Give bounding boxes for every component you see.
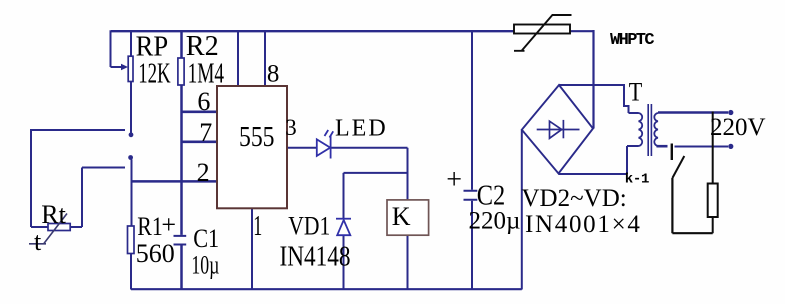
resistor R1 body bbox=[128, 226, 135, 254]
wire below lower contact to R1 bbox=[131, 160, 133, 227]
wire bottom rail bbox=[131, 288, 522, 290]
svg-text:VD2~VD:: VD2~VD: bbox=[522, 185, 627, 212]
node connector contact lower bbox=[128, 155, 133, 160]
wire R1 bottom to rail bbox=[130, 254, 132, 290]
svg-text:+: + bbox=[446, 165, 462, 196]
wire probe upper (Rt left to connector) bbox=[31, 129, 125, 227]
svg-text:220V: 220V bbox=[710, 114, 766, 141]
svg-text:220µ: 220µ bbox=[469, 208, 521, 235]
wire RP bottom to contact bbox=[130, 82, 132, 133]
svg-text:6: 6 bbox=[197, 87, 210, 116]
svg-text:t: t bbox=[34, 227, 42, 256]
svg-text:IN4148: IN4148 bbox=[280, 242, 351, 273]
wire RP top bbox=[130, 30, 132, 56]
svg-text:1M4: 1M4 bbox=[188, 58, 225, 89]
svg-text:8: 8 bbox=[267, 60, 280, 87]
node connector contact upper bbox=[129, 132, 134, 137]
LED D symbol bbox=[317, 130, 333, 159]
wire top rail right of PTC bbox=[570, 30, 594, 129]
resistor (load) right branch bbox=[708, 112, 718, 234]
wire pin1 bbox=[251, 208, 253, 289]
wire rail to 555 top (pin8) bbox=[264, 30, 266, 87]
wire top rail bbox=[111, 30, 514, 32]
svg-text:2: 2 bbox=[197, 158, 210, 187]
wire LED to K column bbox=[331, 148, 408, 200]
svg-text:WHPTC: WHPTC bbox=[610, 31, 654, 50]
svg-text:1: 1 bbox=[253, 210, 262, 242]
potentiometer RP body bbox=[128, 56, 133, 81]
svg-text:C1: C1 bbox=[193, 223, 219, 253]
wire bridge left corner to bottom rail bbox=[521, 130, 523, 290]
wire pin3 to LED bbox=[287, 147, 317, 149]
PTC heater WHPTC symbol bbox=[514, 15, 572, 51]
node 220V top terminal bbox=[728, 110, 733, 115]
svg-text:Rt: Rt bbox=[41, 200, 66, 229]
wire K bottom bbox=[407, 235, 409, 289]
transformer core bbox=[648, 104, 651, 156]
wire probe lower (Rt right to connector) bbox=[70, 168, 125, 228]
switch contact k-1 bbox=[672, 144, 713, 234]
wire pin2 bbox=[132, 180, 218, 183]
wire pin6 bbox=[182, 111, 218, 114]
svg-text:LED: LED bbox=[335, 115, 388, 141]
resistor R2 body bbox=[178, 58, 184, 85]
svg-text:K: K bbox=[392, 202, 411, 231]
wire rail to 555 top (pin4) bbox=[237, 30, 239, 87]
thermistor Rt body bbox=[48, 224, 70, 231]
wire bottom lead right of contact bbox=[675, 146, 729, 148]
bridge rectifier VD2~VD5 bbox=[522, 85, 593, 174]
node 220V bottom terminal bbox=[728, 144, 733, 149]
wire bus R2 column bbox=[180, 30, 183, 289]
diode VD1 bbox=[336, 219, 351, 236]
relay K box bbox=[387, 200, 429, 235]
wire VD1 column bbox=[343, 173, 345, 290]
wire bridge top corner to transformer bbox=[559, 84, 639, 113]
capacitor C2 bbox=[464, 191, 478, 200]
svg-text:555: 555 bbox=[239, 122, 275, 153]
svg-text:560: 560 bbox=[136, 239, 175, 268]
svg-text:k-1: k-1 bbox=[625, 172, 649, 188]
potentiometer RP wiper arrow bbox=[121, 64, 128, 70]
wire left drop to RP wiper bbox=[111, 30, 122, 67]
capacitor C1 bbox=[174, 236, 187, 245]
wire pin7 bbox=[182, 141, 218, 144]
thermistor Rt diagonal bbox=[29, 214, 67, 245]
svg-text:IN4001×4: IN4001×4 bbox=[525, 211, 642, 238]
svg-text:+: + bbox=[161, 210, 176, 239]
svg-text:T: T bbox=[629, 77, 643, 107]
svg-text:3: 3 bbox=[285, 115, 297, 140]
wire secondary bottom lead bbox=[657, 145, 668, 148]
transformer T windings bbox=[639, 104, 659, 156]
wire bridge bottom corner to transformer bbox=[559, 146, 639, 174]
svg-text:10µ: 10µ bbox=[191, 250, 219, 280]
svg-text:R1: R1 bbox=[137, 212, 163, 241]
svg-text:12K: 12K bbox=[138, 59, 171, 90]
op-amp 555 IC box bbox=[217, 86, 287, 208]
wire C2 column bbox=[471, 30, 473, 289]
svg-text:VD1: VD1 bbox=[288, 211, 330, 241]
wire secondary top lead to 220V bbox=[658, 111, 728, 114]
wire VD1 tie bbox=[344, 172, 408, 174]
svg-text:7: 7 bbox=[199, 118, 212, 147]
